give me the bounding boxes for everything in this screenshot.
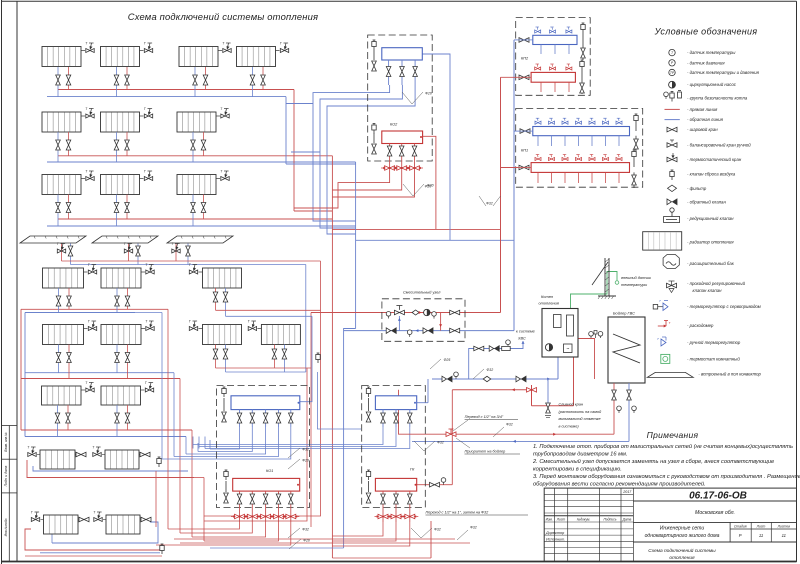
svg-text:Ф32: Ф32 [437, 441, 444, 445]
svg-text:КО2: КО2 [390, 123, 398, 127]
svg-text:Московская обл.: Московская обл. [695, 510, 735, 516]
svg-text:Бойлер ГВС: Бойлер ГВС [613, 311, 635, 316]
svg-text:КО1: КО1 [266, 469, 273, 473]
svg-text:КП1: КП1 [521, 149, 528, 153]
svg-text:Исполнит.: Исполнит. [546, 538, 565, 542]
svg-text:ГК: ГК [410, 468, 415, 472]
svg-text:Ф25: Ф25 [444, 358, 451, 362]
svg-text:Ф32: Ф32 [470, 526, 477, 530]
svg-text:ТР: ТР [670, 71, 675, 75]
svg-text:Схема подключений системы отоп: Схема подключений системы отопления [128, 11, 318, 22]
svg-text:КП2: КП2 [521, 57, 529, 61]
svg-text:Дата: Дата [622, 518, 632, 522]
svg-text:- встроенный в пол конвектор: - встроенный в пол конвектор [698, 371, 761, 376]
svg-text:- фильтр: - фильтр [687, 186, 707, 191]
svg-text:Изм.: Изм. [546, 518, 553, 522]
svg-text:Примечания: Примечания [647, 430, 699, 440]
svg-text:(расположить на самой: (расположить на самой [559, 410, 603, 414]
svg-text:отопления: отопления [669, 556, 695, 561]
svg-text:- расширительный бак: - расширительный бак [687, 261, 735, 266]
svg-text:Приоритет на бойлер: Приоритет на бойлер [465, 450, 506, 454]
svg-text:Лист: Лист [756, 524, 766, 528]
svg-text:внешний датчик: внешний датчик [621, 276, 651, 280]
svg-text:- терморегулятор с сервопривод: - терморегулятор с сервоприводом [687, 304, 761, 309]
svg-text:в системе): в системе) [559, 424, 580, 428]
svg-text:- проходной регулировочный: - проходной регулировочный [687, 281, 746, 286]
svg-text:2017: 2017 [622, 490, 632, 494]
svg-text:Ф32: Ф32 [506, 423, 513, 427]
svg-text:Ф32: Ф32 [487, 368, 494, 372]
svg-text:№докум.: №докум. [577, 518, 591, 522]
svg-text:одноквартирного жилого дома: одноквартирного жилого дома [645, 533, 720, 539]
svg-text:- термостатический кран: - термостатический кран [687, 157, 742, 162]
svg-text:корректировки в спецификацию.: корректировки в спецификацию. [533, 467, 622, 473]
svg-text:- термостат комнатный: - термостат комнатный [687, 356, 740, 361]
svg-text:3. Перед монтажом оборудования: 3. Перед монтажом оборудования ознакомит… [533, 474, 800, 480]
svg-text:- датчик температуры и давлени: - датчик температуры и давления [687, 70, 760, 75]
svg-text:- клапан сброса воздуха: - клапан сброса воздуха [687, 172, 736, 177]
svg-text:Переход с 1/2" на 3/4": Переход с 1/2" на 3/4" [465, 415, 504, 419]
svg-text:- ручной терморегулятор: - ручной терморегулятор [687, 340, 741, 345]
svg-text:Смесительный узел: Смесительный узел [403, 290, 441, 295]
svg-text:Лист: Лист [556, 518, 566, 522]
svg-text:1. Подключение отоп. приборов: 1. Подключение отоп. приборов от магистр… [533, 443, 793, 450]
svg-text:оборудования вести согласно ре: оборудования вести согласно рекомендация… [533, 481, 706, 488]
svg-text:Ф32: Ф32 [434, 528, 441, 532]
svg-text:Сливной кран: Сливной кран [559, 403, 584, 407]
svg-text:Подп. и дата: Подп. и дата [4, 466, 8, 487]
svg-text:- датчик давления: - датчик давления [687, 60, 725, 65]
svg-text:минимальной отметке: минимальной отметке [559, 417, 601, 421]
svg-text:06.17-06-ОВ: 06.17-06-ОВ [689, 490, 747, 501]
svg-text:Инв.№подл.: Инв.№подл. [4, 518, 8, 537]
svg-text:- редукционный клапан: - редукционный клапан [687, 216, 734, 221]
svg-text:Схема подключений системы: Схема подключений системы [648, 547, 716, 554]
svg-text:Котел: Котел [541, 294, 554, 299]
svg-text:Ф20: Ф20 [302, 459, 309, 463]
svg-text:Р: Р [739, 533, 742, 538]
svg-text:- обратная линия: - обратная линия [687, 117, 724, 122]
svg-text:11: 11 [759, 533, 763, 538]
svg-text:- датчик температуры: - датчик температуры [687, 50, 736, 55]
svg-text:2. Смесительный узел допускает: 2. Смесительный узел допускается заменят… [532, 458, 774, 465]
svg-text:Листов: Листов [777, 524, 791, 528]
svg-text:трубопроводам диаметром 16 мм.: трубопроводам диаметром 16 мм. [533, 452, 627, 458]
svg-text:Взам. инв.№: Взам. инв.№ [4, 432, 8, 452]
svg-text:- радиатор отопления: - радиатор отопления [687, 240, 734, 245]
svg-text:Ф20: Ф20 [303, 539, 310, 543]
svg-text:к системе: к системе [516, 330, 535, 334]
svg-text:- обратный клапан: - обратный клапан [687, 199, 726, 204]
svg-text:Ф32: Ф32 [302, 528, 309, 532]
svg-text:11: 11 [782, 533, 786, 538]
svg-text:Ф32: Ф32 [486, 202, 493, 206]
svg-text:Переход с 1/2" на 1", затем на: Переход с 1/2" на 1", затем на Ф32 [426, 511, 490, 515]
svg-text:- циркуляционный насос: - циркуляционный насос [687, 82, 737, 87]
svg-text:- балансировочный кран ручной: - балансировочный кран ручной [687, 143, 751, 148]
svg-text:- группа безопасности котла: - группа безопасности котла [687, 95, 748, 100]
svg-text:ХВС: ХВС [517, 337, 526, 341]
svg-text:Ф32: Ф32 [302, 448, 309, 452]
svg-text:Директор: Директор [545, 531, 564, 535]
svg-text:Ф20: Ф20 [425, 185, 432, 189]
svg-text:отопления: отопления [539, 301, 559, 306]
svg-text:Стадия: Стадия [734, 524, 747, 528]
svg-text:Инженерные сети: Инженерные сети [660, 526, 705, 532]
svg-text:температуры: температуры [621, 283, 647, 287]
svg-text:- прямая линия: - прямая линия [687, 107, 718, 112]
svg-text:Подпись: Подпись [603, 518, 616, 522]
svg-text:Ф20: Ф20 [425, 92, 432, 96]
svg-text:Условные обозначения: Условные обозначения [654, 27, 758, 37]
svg-text:- расходомер: - расходомер [687, 323, 714, 328]
svg-text:клапан клапан: клапан клапан [693, 288, 723, 293]
svg-text:- шаровой кран: - шаровой кран [687, 127, 718, 132]
svg-text:~: ~ [566, 347, 569, 353]
